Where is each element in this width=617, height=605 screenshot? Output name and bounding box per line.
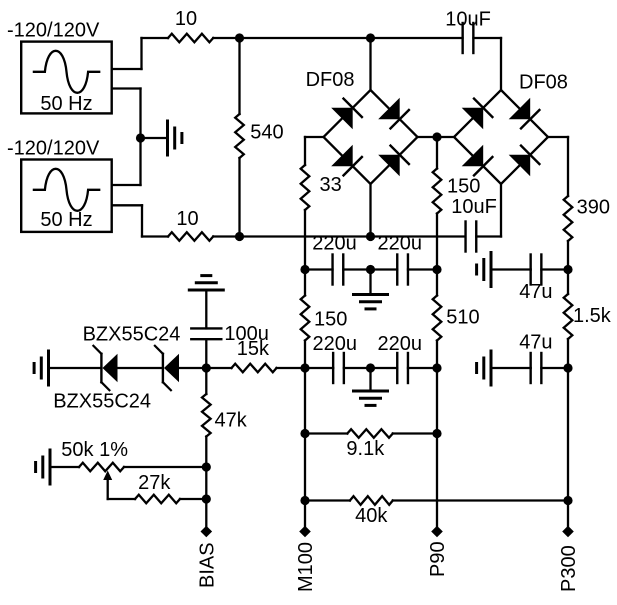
- wire row1 seg2: [343, 268, 397, 270]
- svg-text:BZX55C24: BZX55C24: [83, 323, 181, 345]
- wire top rail middle: [213, 37, 462, 39]
- wire row2 ground stem: [369, 368, 371, 391]
- capacitor 220u (row2 left): [333, 353, 344, 383]
- wire V1 top terminal: [112, 68, 142, 70]
- capacitor 220u (row1 right): [397, 255, 408, 285]
- wire up to top rail: [140, 38, 142, 69]
- wire 47u2 right lead: [541, 367, 568, 369]
- bridge1 diode D2 (top to right): [378, 98, 410, 130]
- svg-text:9.1k: 9.1k: [346, 438, 385, 460]
- wire 33 top lead: [304, 137, 306, 165]
- svg-text:33: 33: [320, 174, 342, 196]
- wire x437 through bottom rail: [436, 214, 438, 296]
- wire row2 seg2: [344, 367, 397, 369]
- svg-text:47u: 47u: [519, 281, 552, 303]
- node x437/cap row2: [432, 363, 441, 372]
- wire bridge1 right to bridge2 left: [418, 136, 455, 138]
- svg-text:50 Hz: 50 Hz: [40, 93, 92, 115]
- svg-text:220u: 220u: [378, 333, 423, 355]
- capacitor 220u (row1 left): [333, 255, 344, 285]
- svg-text:390: 390: [577, 196, 610, 218]
- svg-text:1.5k: 1.5k: [573, 305, 612, 327]
- wire x305 down to M100: [304, 341, 306, 527]
- node bias/50k: [202, 462, 211, 471]
- ground G8 (47u row2): [477, 351, 491, 385]
- resistor 50k 1% potentiometer: [79, 463, 124, 472]
- node x305/40k: [300, 496, 309, 505]
- AC source V1 box: [21, 42, 112, 114]
- ground G7 (47u row1): [477, 253, 491, 287]
- wire 47u1 right lead: [541, 268, 568, 270]
- resistor 540: [235, 114, 244, 158]
- wire x437 down to P90: [436, 341, 438, 527]
- node x305/cap row1: [300, 265, 309, 274]
- svg-text:10uF: 10uF: [451, 196, 497, 218]
- wire bottom rail left: [142, 235, 168, 237]
- ground G5 (row1): [354, 295, 388, 309]
- wire row1 seg3: [408, 268, 437, 270]
- wire 47u1 left lead: [491, 268, 531, 270]
- svg-text:10: 10: [176, 208, 198, 230]
- svg-text:P300: P300: [558, 545, 580, 592]
- node x568/40k: [563, 496, 572, 505]
- resistor 150 (mid-left): [301, 296, 310, 341]
- wire bridge1 top vertex to rail: [369, 38, 371, 90]
- svg-text:47u: 47u: [519, 332, 552, 354]
- wire V2 top terminal: [112, 184, 141, 186]
- wire ground to 50k: [50, 466, 79, 468]
- bridge1 diode D3 (left to bottom): [331, 145, 363, 177]
- bridge2 diode D8: [509, 144, 541, 176]
- wire up to bridge2 bottom: [500, 184, 502, 237]
- capacitor 100u: [191, 328, 221, 339]
- node x568/47u row1: [563, 265, 572, 274]
- svg-text:100u: 100u: [224, 323, 269, 345]
- wire 40k left lead: [305, 499, 350, 501]
- svg-text:47k: 47k: [215, 410, 248, 432]
- wire row1 ground stem: [369, 270, 371, 295]
- svg-text:10: 10: [175, 8, 197, 30]
- svg-text:540: 540: [250, 122, 283, 144]
- node x305/9.1k: [300, 429, 309, 438]
- wire 27k to bias column: [180, 498, 206, 500]
- wire bottom rail right: [476, 235, 501, 237]
- node bias/27k: [202, 494, 211, 503]
- svg-text:10uF: 10uF: [445, 9, 491, 31]
- svg-text:150: 150: [314, 309, 347, 331]
- node x305/cap row2: [300, 363, 309, 372]
- node row1 center: [366, 265, 375, 274]
- diode bridge U1 DF08 outline: [324, 90, 418, 184]
- wire wiper to 27k: [108, 498, 135, 500]
- capacitor 220u (row2 right): [397, 353, 408, 383]
- svg-text:50 Hz: 50 Hz: [40, 209, 92, 231]
- ground G2 (zener row): [34, 351, 48, 385]
- resistor 150 (bridge): [433, 169, 442, 214]
- resistor 15k: [232, 364, 277, 373]
- node between bridges: [432, 132, 441, 141]
- node bottom rail / bridge1: [366, 232, 375, 241]
- capacitor 47u (row2): [531, 353, 542, 383]
- svg-text:27k: 27k: [138, 472, 171, 494]
- node top rail / 540: [235, 33, 244, 42]
- node x437/9.1k: [432, 429, 441, 438]
- wire 9.1k right lead: [393, 432, 437, 434]
- wire 540 bottom lead: [238, 158, 240, 237]
- wire 15k to x305: [277, 367, 306, 369]
- terminal P300: [562, 526, 574, 538]
- wire center column to ground node: [139, 89, 141, 186]
- wire x305 through bottom rail: [304, 210, 306, 296]
- svg-text:P90: P90: [427, 541, 449, 577]
- potentiometer wiper arrow: [103, 471, 112, 500]
- AC source V2 sine symbol: [34, 169, 99, 211]
- wire 150 top lead: [436, 137, 438, 169]
- terminal BIAS: [201, 526, 213, 538]
- svg-text:M100: M100: [295, 542, 317, 592]
- wire top rail right: [474, 37, 502, 39]
- resistor 27k: [135, 495, 180, 504]
- svg-text:220u: 220u: [313, 333, 358, 355]
- zener diode D10 BZX55C24: [155, 346, 179, 390]
- wire row2 seg3: [408, 367, 437, 369]
- resistor 9.1k: [347, 429, 393, 438]
- wire row2 seg1: [305, 367, 333, 369]
- wire V1 bottom terminal: [112, 87, 141, 89]
- wire 47k top lead: [205, 368, 207, 394]
- wire to ground G1: [141, 137, 168, 139]
- resistor 390: [564, 196, 573, 241]
- wire x568 down to P300: [567, 339, 569, 526]
- wire between zeners: [118, 367, 162, 369]
- bridge2 diode D7: [462, 145, 494, 177]
- wire 390 top lead: [567, 137, 569, 196]
- svg-text:510: 510: [446, 306, 479, 328]
- wire bridge2 right vertex: [548, 136, 568, 138]
- resistor 10 (top): [168, 34, 213, 43]
- terminal M100: [299, 526, 311, 538]
- svg-text:BZX55C24: BZX55C24: [53, 390, 151, 412]
- wire bridge1 bottom vertex to rail: [369, 184, 371, 237]
- wire 100u top lead: [205, 290, 207, 328]
- resistor 33: [301, 165, 310, 210]
- ground G3 (50k): [36, 450, 50, 484]
- capacitor 10uF (top): [463, 23, 474, 53]
- wire bridge1 left vertex: [305, 136, 324, 138]
- resistor 10 (bottom): [168, 232, 213, 241]
- ground G4 (above 100u): [189, 276, 223, 290]
- wire row1 seg1: [305, 268, 333, 270]
- wire zener row left: [49, 367, 102, 369]
- capacitor 47u (row1): [531, 255, 542, 285]
- bridge2 diode D5: [462, 97, 494, 129]
- svg-text:DF08: DF08: [306, 69, 355, 91]
- node bottom rail / 540: [235, 232, 244, 241]
- zener diode D9 BZX55C24: [93, 346, 117, 390]
- node x568/47u row2: [563, 363, 572, 372]
- resistor 1.5k: [564, 294, 573, 339]
- wire 9.1k left lead: [305, 432, 347, 434]
- wire V2 bottom terminal: [112, 204, 142, 206]
- resistor 510: [433, 296, 442, 341]
- svg-text:220u: 220u: [378, 233, 423, 255]
- svg-text:40k: 40k: [355, 505, 388, 527]
- node bias column / row2: [202, 363, 211, 372]
- svg-text:DF08: DF08: [519, 72, 568, 94]
- wire zener to 15k: [179, 367, 232, 369]
- wire 390 to node: [567, 241, 569, 294]
- wire 540 top lead: [238, 38, 240, 114]
- node x437/cap row1: [432, 265, 441, 274]
- wire 40k right lead: [393, 499, 568, 501]
- svg-text:50k 1%: 50k 1%: [61, 439, 128, 461]
- wire 47u2 left lead: [491, 367, 531, 369]
- capacitor 10uF (bottom): [466, 222, 477, 252]
- ground G1 (source common): [168, 121, 182, 155]
- wire down to bridge2 top: [500, 38, 502, 90]
- svg-text:220u: 220u: [312, 233, 357, 255]
- wire top rail left: [142, 37, 169, 39]
- resistor 47k: [202, 394, 211, 437]
- svg-text:150: 150: [447, 176, 480, 198]
- AC source V2 box: [21, 160, 112, 232]
- ground G6 (row2): [354, 391, 388, 405]
- node top rail / bridge1: [366, 33, 375, 42]
- wire bottom rail middle: [213, 235, 465, 237]
- wire 100u bottom lead: [205, 339, 207, 368]
- svg-text:BIAS: BIAS: [197, 542, 219, 588]
- wire down to bottom rail: [141, 205, 143, 236]
- node row2 center: [366, 363, 375, 372]
- wire 50k to bias column: [124, 466, 206, 468]
- diode bridge U2 DF08 outline: [454, 90, 548, 184]
- wire bias column to BIAS: [205, 437, 207, 527]
- terminal P90: [431, 526, 443, 538]
- svg-text:-120/120V: -120/120V: [7, 137, 100, 159]
- bridge2 diode D6: [509, 98, 541, 130]
- resistor 40k: [350, 496, 393, 505]
- AC source V1 sine symbol: [34, 51, 99, 93]
- node source common: [136, 133, 145, 142]
- svg-text:-120/120V: -120/120V: [7, 20, 100, 42]
- bridge1 diode D1 (lower-left to top): [331, 97, 363, 129]
- bridge1 diode D4 (bottom to right): [378, 144, 410, 176]
